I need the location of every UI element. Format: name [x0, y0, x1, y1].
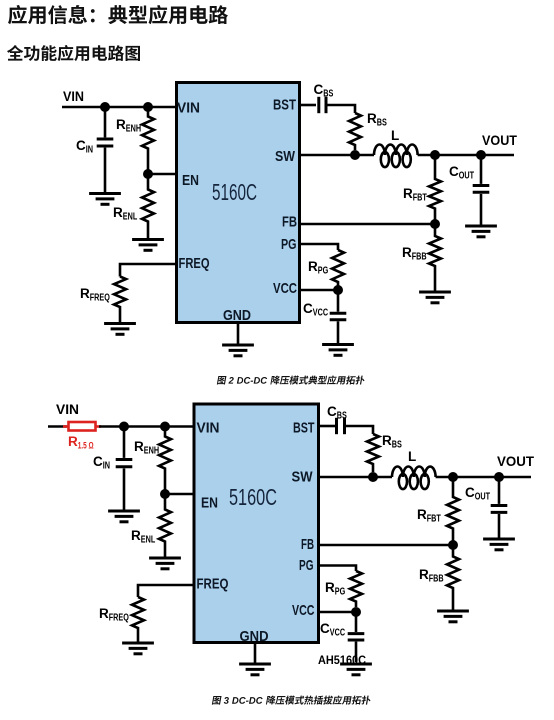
- wire FB to IC 2: [319, 544, 453, 547]
- resistor RFBT 2: [447, 477, 459, 545]
- svg-text:EN: EN: [201, 495, 218, 512]
- node VIN-CIN junction 2: [119, 422, 129, 432]
- node SW-RBS junction 2: [368, 472, 378, 482]
- resistor RENL: [142, 174, 154, 239]
- ground COUT ground 2: [483, 538, 515, 541]
- ground IC GND ground 2: [239, 663, 271, 666]
- svg-text:BST: BST: [273, 97, 296, 114]
- svg-text:PG: PG: [299, 557, 314, 574]
- wire VIN rail 2: [99, 425, 194, 428]
- wire SW rail left 2: [319, 476, 392, 479]
- node SW-RBS junction: [350, 150, 360, 160]
- wire GND pin 2: [254, 643, 257, 663]
- ground CVCC ground 2: [340, 663, 372, 666]
- subtitle 全功能应用电路图: [7, 45, 140, 61]
- ground RFREQ ground 2: [122, 642, 154, 645]
- node EN junction: [143, 169, 153, 179]
- svg-text:5160C: 5160C: [229, 484, 277, 510]
- svg-text:5160C: 5160C: [212, 179, 257, 205]
- node VIN-RENH junction: [143, 102, 153, 112]
- resistor RFREQ 2: [132, 597, 144, 642]
- svg-text:FB: FB: [282, 214, 297, 231]
- node VOUT-COUT junction: [476, 150, 486, 160]
- svg-text:GND: GND: [223, 307, 251, 324]
- svg-text:FREQ: FREQ: [197, 576, 229, 593]
- svg-text:VIN: VIN: [63, 89, 84, 104]
- ground RFREQ ground: [104, 322, 136, 325]
- wire EN to IC: [148, 173, 176, 176]
- capacitor CIN: [104, 107, 107, 137]
- wire VCC to IC 2: [319, 611, 356, 614]
- node VOUT-COUT junction 2: [494, 472, 504, 482]
- capacitor COUT: [480, 155, 483, 184]
- resistor RFBB: [429, 224, 441, 291]
- svg-text:VCC: VCC: [273, 280, 297, 297]
- wire FREQ to IC 2: [138, 585, 194, 597]
- ground RENL ground 2: [149, 557, 181, 560]
- node FB junction 2: [448, 540, 458, 550]
- capacitor CBS 2: [335, 418, 338, 434]
- svg-text:SW: SW: [292, 469, 314, 486]
- node VCC junction: [333, 285, 343, 295]
- node EN junction 2: [160, 489, 170, 499]
- wire PG to RPG 2: [319, 566, 356, 572]
- capacitor CVCC 2: [355, 612, 358, 632]
- svg-text:VIN: VIN: [197, 420, 220, 437]
- svg-text:EN: EN: [182, 172, 199, 189]
- svg-text:VOUT: VOUT: [497, 454, 535, 469]
- node VIN-CIN junction: [100, 102, 110, 112]
- wire FB to IC: [300, 223, 435, 226]
- ground COUT ground: [465, 225, 497, 228]
- svg-text:VOUT: VOUT: [482, 133, 518, 148]
- svg-text:GND: GND: [240, 628, 269, 645]
- wire EN to IC 2: [165, 493, 194, 496]
- ground CIN ground: [89, 192, 121, 195]
- resistor RFBB 2: [447, 545, 459, 610]
- wire CBS to RBS: [327, 105, 355, 113]
- caption figure 3 图3 DC-DC 降压模式热插拔应用拓扑: [212, 696, 372, 705]
- node L-RFBT junction 2: [448, 472, 458, 482]
- resistor RBS: [349, 113, 361, 150]
- op-amp U2 regulator IC 5160C (hot-plug): [194, 404, 319, 645]
- node VIN-RENH junction 2: [160, 422, 170, 432]
- wire SW rail right to VOUT 2: [436, 476, 531, 479]
- svg-text:L: L: [408, 449, 416, 464]
- node VCC junction 2: [351, 607, 361, 617]
- page title 应用信息：典型应用电路: [8, 5, 228, 24]
- ground RFBB ground: [419, 291, 451, 294]
- wire SW rail left: [300, 154, 374, 157]
- svg-text:SW: SW: [275, 148, 296, 165]
- wire PG to RPG: [300, 244, 338, 250]
- node L-RFBT junction: [430, 150, 440, 160]
- svg-text:FREQ: FREQ: [179, 255, 210, 272]
- svg-text:PG: PG: [281, 236, 297, 253]
- ground RENL ground: [132, 238, 164, 241]
- svg-text:BST: BST: [293, 420, 315, 437]
- svg-text:VIN: VIN: [56, 402, 79, 417]
- node FB junction: [430, 219, 440, 229]
- wire BST to CBS: [300, 104, 316, 107]
- wire CBS to RBS 2: [346, 426, 374, 434]
- svg-text:L: L: [391, 128, 399, 143]
- wire RPG to VCC node: [337, 285, 340, 290]
- svg-text:VIN: VIN: [177, 100, 200, 117]
- wire VIN lead-in: [48, 425, 67, 428]
- op-amp U1 regulator IC 5160C: [177, 83, 300, 325]
- capacitor COUT 2: [498, 477, 501, 504]
- resistor R1 1.5ohm hot-plug (red): [63, 422, 101, 431]
- resistor RENL 2: [159, 494, 171, 557]
- ground CVCC ground: [322, 343, 354, 346]
- svg-text:FB: FB: [301, 536, 314, 553]
- svg-text:VCC: VCC: [292, 602, 315, 619]
- wire SW rail right to VOUT: [418, 154, 514, 157]
- resistor RBS 2: [367, 434, 379, 472]
- resistor RPG 2: [350, 571, 362, 607]
- capacitor CBS: [317, 97, 320, 113]
- resistor RENH 2: [159, 427, 171, 495]
- ground RFBB ground 2: [437, 610, 469, 613]
- wire VCC to IC: [300, 289, 338, 292]
- wire FREQ to IC: [120, 264, 176, 277]
- resistor RFREQ: [114, 277, 126, 323]
- wire BST to CBS 2: [319, 425, 335, 428]
- wire GND pin: [237, 322, 240, 345]
- resistor RENH: [142, 107, 154, 174]
- ground CIN ground 2: [108, 510, 140, 513]
- wire VIN input rail: [62, 106, 176, 109]
- inductor L1: [374, 145, 418, 156]
- resistor RPG: [332, 250, 344, 285]
- resistor RFBT: [429, 155, 441, 224]
- inductor L2: [392, 467, 436, 477]
- capacitor CIN 2: [123, 427, 126, 458]
- capacitor CVCC: [337, 290, 340, 312]
- caption figure 2 图2 DC-DC 降压模式典型应用拓扑: [217, 376, 366, 385]
- ground IC GND ground: [222, 344, 254, 347]
